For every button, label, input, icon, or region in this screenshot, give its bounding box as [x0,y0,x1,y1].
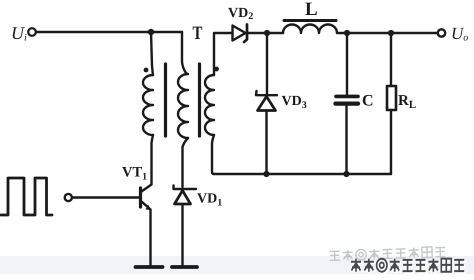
watermark zhihu light gray [330,246,446,261]
node C top junction [344,30,350,36]
transistor VT1 emitter with arrow [142,202,151,210]
node VD3 bottom junction [263,171,269,177]
svg-text:L: L [305,0,318,20]
transformer T primary winding N1 [143,75,153,135]
svg-text:VT1: VT1 [122,165,147,183]
square wave drive symbol [1,178,52,215]
transformer T reset winding N3 (middle) [178,74,188,138]
diode VD1 [174,186,197,190]
diode VD2 [233,26,246,41]
wire middle-winding top lead [182,32,187,74]
watermark toutiao dark text [351,259,464,272]
wire VD3 anode to bottom rail [265,111,267,175]
capacitor C top lead [346,33,348,95]
svg-text:VD2: VD2 [228,6,253,22]
output terminal Uo [438,29,445,36]
polarity dot primary [144,68,149,73]
node primary top junction [148,29,154,35]
capacitor C plates [336,95,358,99]
wire VD2 cathode to L [247,32,283,34]
wire primary bottom to VT1 collector [152,135,154,184]
transformer T secondary winding N2 [205,75,214,135]
wire top rail left (Ui to corner) [36,31,182,33]
watermark toutiao embossed white shadow [353,260,466,273]
capacitor C bottom lead [345,106,347,174]
bottom rail wire [214,173,391,175]
wire secondary top lead to VD2 [214,33,232,75]
resistor RL bottom lead [390,110,392,174]
svg-text:VD1: VD1 [197,192,222,209]
svg-text:C: C [362,93,374,110]
inductor L winding [283,25,337,33]
transistor VT1 base bar [139,188,142,207]
wire VD1 anode to ground [181,204,183,265]
ground VD1 [172,265,197,269]
transformer core bar left [164,64,167,136]
wire middle winding bottom to VD1 [183,138,189,187]
resistor RL body [387,86,396,110]
input terminal Ui [28,28,36,36]
svg-text:Ui: Ui [11,23,27,44]
watermark background band [0,256,474,274]
drive input terminal [65,194,72,201]
polarity dot secondary [214,67,219,72]
wire primary top lead [151,32,153,75]
svg-text:VD3: VD3 [282,94,307,111]
node C bottom junction [343,171,349,177]
node RL top junction [388,30,394,36]
ground VT1 emitter [136,265,163,269]
inductor L core bar [284,19,336,22]
wire VT1 emitter to ground [149,210,151,265]
svg-text:RL: RL [398,93,416,111]
wire base lead [72,196,139,198]
transformer core bar right [198,64,201,136]
node VD3 top junction [264,30,270,36]
resistor RL top lead [390,33,392,86]
wire secondary bottom lead [212,135,214,174]
svg-text:Uo: Uo [451,24,468,44]
diode VD3 [266,33,268,94]
svg-text:T: T [193,23,203,44]
wire L to output terminal [337,32,438,34]
transistor VT1 collector [142,185,152,192]
